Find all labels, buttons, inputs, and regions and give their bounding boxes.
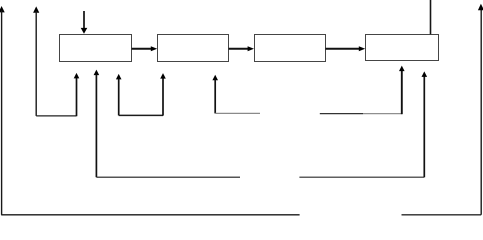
box 4 — [366, 35, 439, 61]
wire L1: up arrow into box2 bottom right, down to y113.5, gray stub right — [212, 75, 260, 114]
box 2 — [158, 35, 229, 62]
bottom right wire: segment at y215 up right edge with arrow at top — [402, 4, 483, 215]
wire U2 between box1 and box2 bottoms: two up arrows joined below — [116, 73, 166, 116]
box 1 — [60, 35, 132, 62]
left outer feedback wire: up arrow at top left, down left edge, along bottom — [0, 6, 300, 215]
output line from box 4 top to page top — [430, 0, 432, 34]
arrow box2 to box3 — [229, 46, 254, 51]
box 3 — [255, 35, 326, 62]
arrow box3 to box4 — [325, 46, 365, 51]
wire L2: gray segment at y113.5, up arrow into box4 bottom — [320, 66, 405, 115]
input arrow down into box 1 top — [81, 11, 88, 34]
long feedback wire at y177 (right part): right segment, up arrow into box4 area — [299, 71, 427, 177]
arrow box1 to box2 — [132, 46, 158, 51]
second left feedback wire U1: up arrow top, down to y116, right, up arrow into box1 — [33, 6, 79, 116]
long feedback wire at y177 (left part): up arrow under box1, down, right — [94, 70, 240, 178]
